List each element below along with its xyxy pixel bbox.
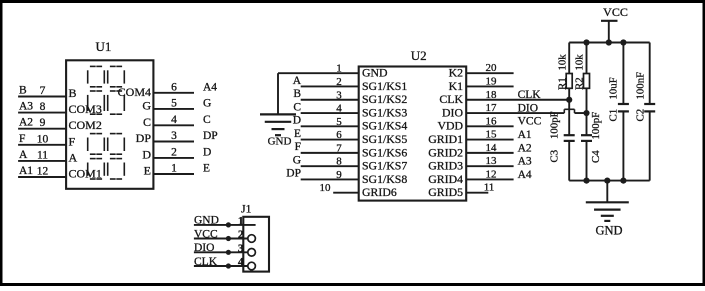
- svg-text:6: 6: [171, 81, 177, 93]
- svg-text:9: 9: [40, 117, 46, 129]
- svg-text:8: 8: [40, 101, 46, 113]
- svg-text:A1: A1: [518, 129, 532, 141]
- U1 pin 1 (E) wire + net E: [144, 163, 210, 178]
- U2 pin 9 (SG1/KS8) wire: [286, 168, 407, 186]
- svg-text:COM3: COM3: [69, 102, 102, 116]
- svg-text:SG1/KS7: SG1/KS7: [362, 159, 407, 173]
- svg-text:G: G: [142, 98, 151, 112]
- svg-text:19: 19: [486, 75, 498, 87]
- U2 pin 20 (K2) wire: [449, 62, 514, 79]
- svg-text:C4: C4: [590, 150, 602, 163]
- svg-text:11: 11: [37, 149, 48, 161]
- svg-text:SG1/KS1: SG1/KS1: [362, 79, 407, 93]
- svg-text:3: 3: [171, 130, 177, 142]
- svg-text:GRID2: GRID2: [428, 145, 463, 159]
- ground (near U2): [260, 114, 296, 147]
- U2 pin 18 (CLK) wire: [439, 89, 569, 106]
- svg-text:10k: 10k: [557, 54, 569, 71]
- svg-text:R2: R2: [574, 77, 586, 90]
- U2 pin 11 (GRID5) wire: [428, 182, 494, 199]
- svg-text:15: 15: [486, 129, 498, 141]
- U2 pin 8 (SG1/KS7) wire: [293, 154, 408, 172]
- svg-text:F: F: [69, 134, 76, 148]
- U2 pin 7 (SG1/KS6) wire: [295, 141, 408, 159]
- svg-text:GND: GND: [194, 215, 219, 227]
- svg-text:11: 11: [484, 182, 495, 194]
- svg-text:20: 20: [486, 62, 498, 74]
- svg-text:U2: U2: [411, 48, 427, 63]
- power VCC: [601, 5, 628, 43]
- svg-text:B: B: [19, 85, 27, 97]
- capacitor C4 100pF: [581, 112, 602, 181]
- svg-text:C3: C3: [549, 150, 561, 163]
- svg-text:6: 6: [336, 129, 342, 141]
- svg-text:5: 5: [171, 97, 177, 109]
- svg-text:A: A: [19, 149, 28, 161]
- svg-text:A1: A1: [19, 165, 33, 177]
- svg-text:3: 3: [336, 89, 342, 101]
- svg-text:DP: DP: [203, 130, 218, 142]
- node CLK junction: [566, 97, 572, 103]
- svg-text:U1: U1: [96, 39, 112, 54]
- svg-text:GRID1: GRID1: [428, 132, 463, 146]
- svg-text:SG1/KS4: SG1/KS4: [362, 119, 407, 133]
- svg-text:E: E: [203, 163, 210, 175]
- IC U2: [359, 48, 467, 201]
- svg-text:17: 17: [486, 102, 498, 114]
- svg-text:CLK: CLK: [439, 92, 463, 106]
- svg-text:1: 1: [238, 215, 244, 227]
- U1 pin 10 (F) wire + net F: [18, 133, 75, 149]
- U1 pin 8 (COM3) wire + net A3: [18, 101, 102, 117]
- svg-text:B: B: [69, 86, 77, 100]
- U2 pin 15 (GRID1) wire: [428, 129, 532, 146]
- segment glyph lower: [88, 134, 125, 179]
- svg-text:DP: DP: [286, 168, 301, 180]
- svg-text:F: F: [19, 133, 25, 145]
- svg-text:4: 4: [171, 114, 177, 126]
- junction dots on VCC rail: [583, 39, 626, 45]
- svg-text:100nF: 100nF: [635, 72, 647, 100]
- svg-text:J1: J1: [241, 204, 251, 216]
- svg-text:GRID4: GRID4: [428, 172, 463, 186]
- U1 pin 9 (COM2) wire + net A2: [18, 117, 102, 133]
- svg-text:K1: K1: [449, 79, 464, 93]
- svg-text:DIO: DIO: [442, 105, 463, 119]
- svg-text:10: 10: [320, 182, 332, 194]
- svg-text:SG1/KS6: SG1/KS6: [362, 145, 407, 159]
- U2 pin 6 (SG1/KS5) wire: [294, 128, 407, 146]
- svg-text:12: 12: [486, 168, 497, 180]
- svg-text:VCC: VCC: [518, 116, 542, 128]
- svg-text:A4: A4: [518, 169, 532, 181]
- svg-text:A2: A2: [19, 117, 33, 129]
- svg-text:100pF: 100pF: [590, 112, 602, 140]
- U2 pin 14 (GRID2) wire: [428, 142, 532, 159]
- svg-text:A3: A3: [518, 156, 532, 168]
- svg-text:K2: K2: [449, 66, 464, 80]
- capacitor C3 100pF: [549, 100, 575, 181]
- svg-text:R1: R1: [557, 77, 569, 90]
- svg-text:C2: C2: [635, 109, 647, 122]
- U1 pin 7 (B) wire + net B: [18, 85, 76, 101]
- svg-text:DIO: DIO: [194, 242, 214, 254]
- J1 pin 1 (GND) wire: [194, 215, 256, 228]
- svg-text:DP: DP: [136, 131, 152, 145]
- U1 pin 6 (COM4) wire + net A4: [118, 81, 218, 99]
- svg-text:GRID3: GRID3: [428, 159, 463, 173]
- U2 pin 5 (SG1/KS4) wire: [293, 115, 408, 133]
- resistor R2 10k: [574, 43, 590, 114]
- svg-text:16: 16: [486, 115, 498, 127]
- svg-text:2: 2: [336, 76, 342, 88]
- U2 pin 12 (GRID4) wire: [428, 168, 532, 185]
- svg-text:F: F: [295, 141, 301, 153]
- svg-text:VCC: VCC: [194, 228, 218, 240]
- svg-text:5: 5: [336, 116, 342, 128]
- svg-text:G: G: [293, 154, 301, 166]
- svg-text:C: C: [203, 114, 211, 126]
- svg-text:D: D: [293, 115, 301, 127]
- ground (bottom right): [586, 181, 629, 238]
- svg-text:1: 1: [336, 63, 342, 75]
- svg-text:18: 18: [486, 89, 498, 101]
- svg-text:C: C: [293, 101, 301, 113]
- svg-text:10uF: 10uF: [608, 77, 620, 99]
- svg-text:GRID6: GRID6: [362, 185, 397, 199]
- svg-text:100pF: 100pF: [549, 111, 561, 139]
- svg-text:3: 3: [238, 243, 244, 255]
- svg-text:9: 9: [336, 169, 342, 181]
- U1 pin 4 (C) wire + net C: [143, 114, 211, 129]
- svg-text:C: C: [143, 115, 151, 129]
- svg-text:7: 7: [40, 85, 46, 97]
- U2 pin 3 (SG1/KS2) wire: [293, 88, 407, 106]
- svg-text:DIO: DIO: [518, 102, 538, 114]
- svg-text:SG1/KS8: SG1/KS8: [362, 172, 407, 186]
- U2 pin 1 (GND) wire: [278, 63, 388, 80]
- svg-text:D: D: [203, 146, 211, 158]
- svg-text:GND: GND: [268, 136, 292, 148]
- svg-text:A2: A2: [518, 142, 532, 154]
- junction dots on ground rail: [583, 178, 626, 184]
- svg-text:B: B: [293, 88, 301, 100]
- U1 pin 11 (A) wire + net A: [18, 149, 77, 165]
- J1 pin 3 (DIO) wire: [194, 242, 256, 256]
- svg-text:D: D: [142, 147, 151, 161]
- svg-text:SG1/KS2: SG1/KS2: [362, 92, 407, 106]
- svg-text:G: G: [203, 97, 211, 109]
- connector J1: [241, 204, 269, 272]
- display U1: [66, 39, 153, 189]
- svg-text:GND: GND: [362, 66, 388, 80]
- svg-text:A4: A4: [203, 81, 217, 93]
- svg-text:A: A: [69, 150, 78, 164]
- svg-text:13: 13: [486, 155, 498, 167]
- svg-text:2: 2: [171, 146, 177, 158]
- U2 pin 17 (DIO) wire: [442, 102, 586, 119]
- svg-text:E: E: [144, 164, 151, 178]
- wire ground rail: [569, 180, 650, 182]
- capacitor C1 10uF: [608, 43, 629, 181]
- J1 pin 4 (CLK) wire: [194, 256, 256, 270]
- svg-text:CLK: CLK: [518, 89, 542, 101]
- wire U2 pin1 to ground: [277, 73, 279, 114]
- svg-text:A3: A3: [19, 101, 33, 113]
- svg-text:1: 1: [171, 163, 177, 175]
- node DIO junction: [583, 110, 589, 116]
- svg-text:CLK: CLK: [194, 256, 218, 268]
- U1 pin 12 (COM1) wire + net A1: [18, 165, 102, 181]
- svg-text:C1: C1: [608, 109, 620, 122]
- svg-text:10k: 10k: [574, 54, 586, 71]
- U2 pin 4 (SG1/KS3) wire: [293, 101, 407, 119]
- svg-text:SG1/KS3: SG1/KS3: [362, 105, 407, 119]
- J1 pin 2 (VCC) wire: [194, 228, 256, 242]
- svg-text:4: 4: [336, 103, 342, 115]
- svg-text:VCC: VCC: [603, 5, 628, 19]
- svg-text:10: 10: [37, 133, 49, 145]
- svg-text:14: 14: [486, 142, 498, 154]
- svg-text:COM4: COM4: [118, 85, 151, 99]
- segment glyph upper: [88, 66, 125, 114]
- U2 pin 16 (VDD) wire: [437, 115, 541, 132]
- resistor R1 10k: [557, 43, 573, 100]
- U1 pin 2 (D) wire + net D: [142, 146, 211, 161]
- U2 pin 19 (K1) wire: [449, 75, 514, 92]
- wire VCC rail: [569, 42, 650, 44]
- svg-text:E: E: [294, 128, 301, 140]
- svg-text:COM1: COM1: [69, 167, 102, 181]
- U2 pin 10 (GRID6) wire: [320, 182, 397, 199]
- U2 pin 13 (GRID3) wire: [428, 155, 532, 172]
- svg-text:8: 8: [336, 156, 342, 168]
- svg-text:VDD: VDD: [437, 119, 463, 133]
- svg-text:4: 4: [238, 257, 244, 269]
- svg-text:COM2: COM2: [69, 118, 102, 132]
- U1 pin 5 (G) wire + net G: [142, 97, 211, 112]
- svg-text:A: A: [293, 75, 302, 87]
- svg-text:GRID5: GRID5: [428, 185, 463, 199]
- svg-text:SG1/KS5: SG1/KS5: [362, 132, 407, 146]
- svg-text:2: 2: [238, 229, 244, 241]
- svg-text:GND: GND: [595, 224, 622, 238]
- capacitor C2 100nF: [635, 43, 656, 181]
- svg-text:7: 7: [336, 142, 342, 154]
- U2 pin 2 (SG1/KS1) wire: [293, 75, 408, 93]
- svg-text:12: 12: [37, 166, 49, 178]
- U1 pin 3 (DP) wire + net DP: [136, 130, 218, 145]
